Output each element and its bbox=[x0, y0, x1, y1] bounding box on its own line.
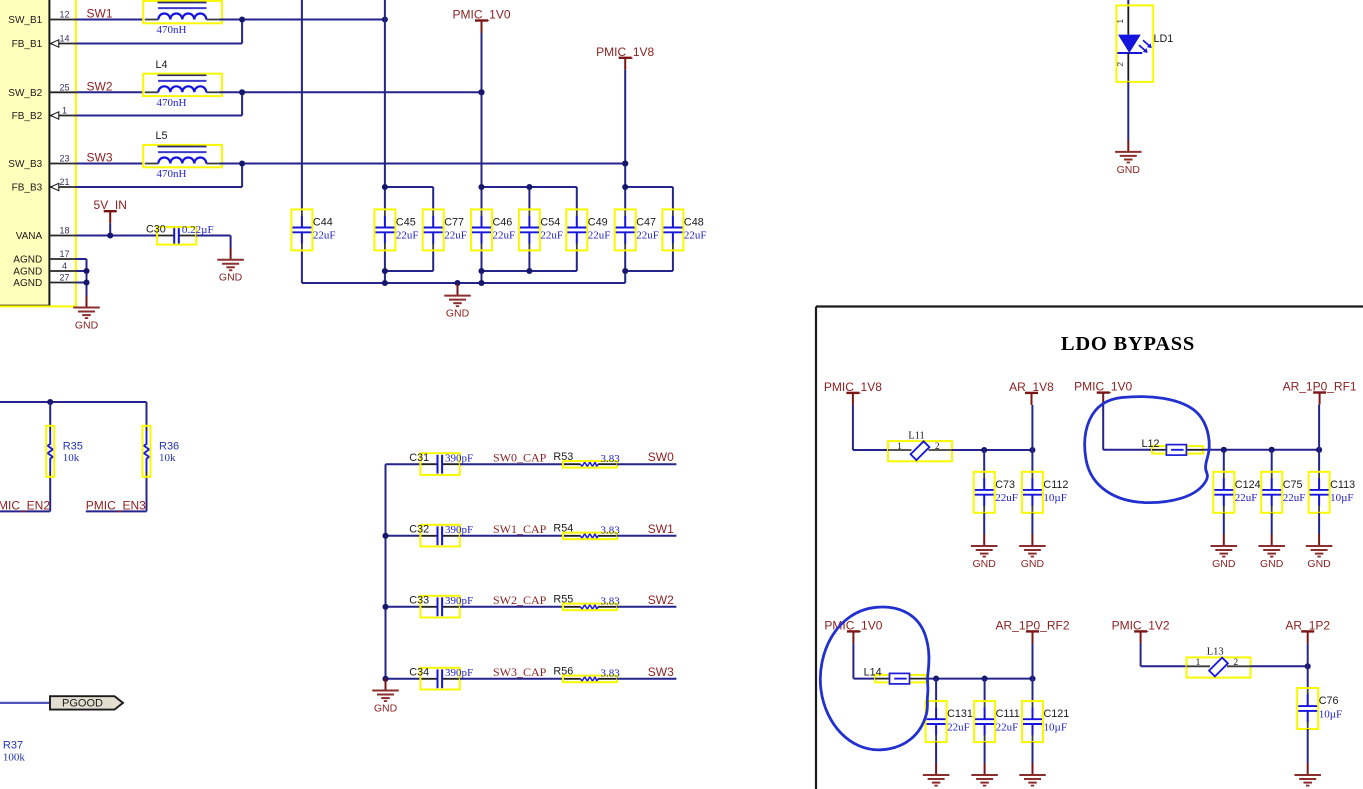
svg-text:390pF: 390pF bbox=[445, 595, 473, 607]
svg-text:2: 2 bbox=[935, 442, 940, 452]
svg-text:VANA: VANA bbox=[16, 231, 43, 242]
svg-text:C77: C77 bbox=[444, 216, 464, 228]
svg-text:3.83: 3.83 bbox=[601, 453, 621, 465]
svg-text:470nH: 470nH bbox=[157, 24, 187, 36]
svg-text:FB_B2: FB_B2 bbox=[12, 111, 43, 122]
svg-text:22uF: 22uF bbox=[684, 230, 707, 242]
svg-text:10k: 10k bbox=[159, 452, 176, 464]
svg-text:1: 1 bbox=[1196, 658, 1201, 668]
svg-text:1: 1 bbox=[897, 442, 902, 452]
svg-text:22uF: 22uF bbox=[947, 721, 970, 733]
svg-text:12: 12 bbox=[59, 10, 69, 20]
svg-text:LD1: LD1 bbox=[1154, 33, 1174, 45]
svg-text:FB_B1: FB_B1 bbox=[12, 39, 43, 50]
svg-text:25: 25 bbox=[59, 83, 69, 93]
svg-text:22uF: 22uF bbox=[540, 230, 563, 242]
svg-text:PMIC_EN2: PMIC_EN2 bbox=[0, 499, 50, 513]
svg-text:22uF: 22uF bbox=[444, 230, 467, 242]
svg-text:3.83: 3.83 bbox=[601, 524, 621, 536]
svg-text:C124: C124 bbox=[1235, 479, 1261, 491]
svg-text:C33: C33 bbox=[409, 595, 429, 607]
svg-text:22uF: 22uF bbox=[996, 721, 1019, 733]
svg-text:C131: C131 bbox=[947, 708, 973, 720]
svg-text:22uF: 22uF bbox=[493, 230, 516, 242]
svg-text:C76: C76 bbox=[1319, 695, 1339, 707]
svg-text:C46: C46 bbox=[493, 216, 513, 228]
svg-text:FB_B3: FB_B3 bbox=[12, 183, 43, 194]
svg-text:10µF: 10µF bbox=[1043, 492, 1066, 504]
svg-text:SW_B3: SW_B3 bbox=[8, 159, 42, 170]
svg-text:10µF: 10µF bbox=[1044, 721, 1067, 733]
svg-text:R35: R35 bbox=[63, 440, 83, 452]
svg-text:GND: GND bbox=[973, 558, 997, 570]
svg-text:R36: R36 bbox=[159, 440, 179, 452]
svg-text:100k: 100k bbox=[3, 752, 26, 764]
svg-text:390pF: 390pF bbox=[445, 453, 473, 465]
svg-text:SW3: SW3 bbox=[648, 665, 674, 679]
svg-text:GND: GND bbox=[1021, 558, 1045, 570]
svg-text:SW2_CAP: SW2_CAP bbox=[493, 593, 547, 607]
svg-text:23: 23 bbox=[59, 154, 69, 164]
svg-text:C113: C113 bbox=[1330, 479, 1355, 491]
svg-text:C49: C49 bbox=[588, 216, 608, 228]
svg-text:C121: C121 bbox=[1044, 708, 1070, 720]
svg-text:2: 2 bbox=[1115, 62, 1125, 67]
svg-text:22uF: 22uF bbox=[1283, 492, 1306, 504]
svg-text:22uF: 22uF bbox=[995, 492, 1018, 504]
svg-text:SW1: SW1 bbox=[87, 7, 113, 21]
svg-text:C32: C32 bbox=[409, 524, 429, 536]
svg-text:27: 27 bbox=[59, 273, 69, 283]
svg-text:L5: L5 bbox=[156, 130, 168, 142]
svg-text:L11: L11 bbox=[908, 430, 925, 441]
svg-text:SW0: SW0 bbox=[648, 450, 674, 464]
svg-text:14: 14 bbox=[59, 34, 69, 44]
svg-text:390pF: 390pF bbox=[445, 524, 473, 536]
svg-text:SW3: SW3 bbox=[87, 151, 113, 165]
svg-text:C45: C45 bbox=[396, 216, 416, 228]
svg-text:18: 18 bbox=[59, 226, 69, 236]
svg-text:390pF: 390pF bbox=[445, 667, 473, 679]
svg-text:L13: L13 bbox=[1207, 647, 1224, 658]
svg-text:R56: R56 bbox=[553, 666, 573, 678]
svg-text:SW2: SW2 bbox=[87, 79, 113, 93]
svg-text:SW0_CAP: SW0_CAP bbox=[493, 450, 547, 464]
svg-text:C48: C48 bbox=[684, 216, 704, 228]
svg-text:SW3_CAP: SW3_CAP bbox=[493, 665, 547, 679]
svg-text:10k: 10k bbox=[63, 452, 80, 464]
svg-text:21: 21 bbox=[59, 177, 69, 187]
svg-text:1: 1 bbox=[1115, 19, 1125, 24]
svg-text:R53: R53 bbox=[553, 451, 573, 463]
svg-text:L4: L4 bbox=[156, 59, 168, 71]
svg-text:PMIC_EN3: PMIC_EN3 bbox=[86, 499, 146, 513]
svg-text:AGND: AGND bbox=[13, 278, 42, 289]
svg-text:C31: C31 bbox=[409, 452, 429, 464]
svg-text:SW1: SW1 bbox=[648, 522, 674, 536]
svg-text:3.83: 3.83 bbox=[601, 667, 621, 679]
svg-text:AGND: AGND bbox=[13, 267, 42, 278]
svg-text:0.22µF: 0.22µF bbox=[182, 224, 214, 236]
svg-text:AGND: AGND bbox=[13, 255, 42, 266]
svg-text:22uF: 22uF bbox=[1235, 492, 1258, 504]
svg-text:GND: GND bbox=[1307, 558, 1331, 570]
svg-text:C54: C54 bbox=[540, 216, 560, 228]
svg-text:L12: L12 bbox=[1142, 438, 1160, 450]
svg-text:GND: GND bbox=[1117, 164, 1141, 176]
svg-text:L14: L14 bbox=[864, 667, 882, 679]
svg-text:R54: R54 bbox=[553, 523, 573, 535]
svg-text:GND: GND bbox=[1212, 558, 1236, 570]
svg-text:R55: R55 bbox=[553, 594, 573, 606]
svg-text:2: 2 bbox=[1233, 658, 1238, 668]
svg-text:C30: C30 bbox=[146, 224, 166, 236]
svg-text:GND: GND bbox=[75, 320, 99, 332]
svg-text:C73: C73 bbox=[995, 479, 1015, 491]
svg-text:470nH: 470nH bbox=[157, 97, 187, 109]
svg-text:22uF: 22uF bbox=[313, 230, 336, 242]
svg-text:22uF: 22uF bbox=[588, 230, 611, 242]
svg-text:22uF: 22uF bbox=[396, 230, 419, 242]
svg-text:10µF: 10µF bbox=[1319, 708, 1342, 720]
svg-text:SW1_CAP: SW1_CAP bbox=[493, 522, 547, 536]
svg-text:1: 1 bbox=[62, 106, 67, 116]
svg-text:SW_B2: SW_B2 bbox=[8, 88, 42, 99]
svg-text:LDO BYPASS: LDO BYPASS bbox=[1061, 333, 1195, 355]
svg-text:PGOOD: PGOOD bbox=[62, 698, 103, 710]
svg-text:GND: GND bbox=[446, 308, 470, 320]
svg-text:C111: C111 bbox=[996, 708, 1020, 720]
svg-text:C112: C112 bbox=[1043, 479, 1068, 491]
svg-text:C47: C47 bbox=[636, 216, 656, 228]
svg-text:GND: GND bbox=[374, 703, 398, 715]
svg-text:SW_B1: SW_B1 bbox=[8, 15, 42, 26]
svg-text:17: 17 bbox=[59, 249, 69, 259]
svg-text:470nH: 470nH bbox=[157, 168, 187, 180]
svg-text:GND: GND bbox=[219, 272, 243, 284]
svg-text:GND: GND bbox=[1260, 558, 1284, 570]
svg-text:C34: C34 bbox=[409, 667, 429, 679]
svg-text:10µF: 10µF bbox=[1330, 492, 1353, 504]
svg-text:C44: C44 bbox=[313, 216, 333, 228]
svg-text:3.83: 3.83 bbox=[601, 595, 621, 607]
svg-text:4: 4 bbox=[62, 261, 67, 271]
svg-text:22uF: 22uF bbox=[636, 230, 659, 242]
svg-text:R37: R37 bbox=[3, 740, 23, 752]
svg-text:SW2: SW2 bbox=[648, 593, 674, 607]
svg-text:C75: C75 bbox=[1283, 479, 1303, 491]
